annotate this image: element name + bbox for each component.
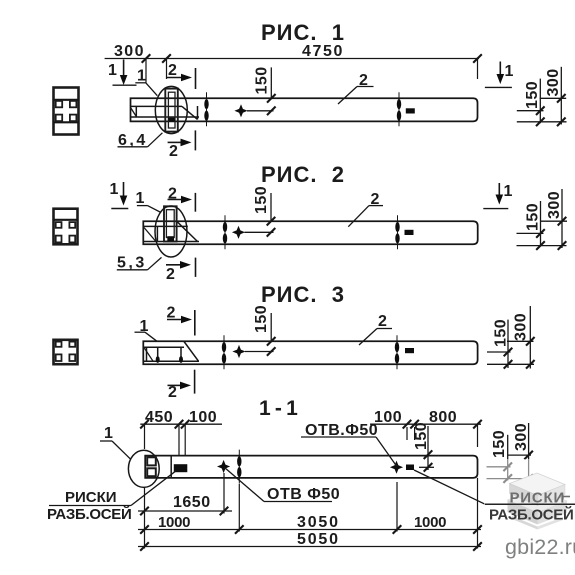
ext line x166 fig1 <box>166 59 168 80</box>
svg-text:ОТВ Ф50: ОТВ Ф50 <box>267 486 340 503</box>
riska plate right 1-1 <box>406 465 414 471</box>
dim row3 5050 <box>138 546 481 548</box>
svg-text:1000: 1000 <box>158 514 190 531</box>
haunch band top fig3 <box>143 346 184 348</box>
svg-text:100: 100 <box>374 409 402 426</box>
svg-text:150: 150 <box>525 203 542 231</box>
riska right fig1 <box>398 92 400 128</box>
ext x407 1-1 <box>406 427 408 440</box>
svg-text:2: 2 <box>378 313 387 330</box>
svg-text:1650: 1650 <box>173 494 211 511</box>
hole left 1-1 <box>217 460 230 473</box>
ext line x146 fig1 <box>145 59 147 84</box>
beam fig1 outline <box>131 98 478 121</box>
ticks 100/800 <box>403 420 412 429</box>
haunch left box fig3 <box>146 347 148 361</box>
beam plan outline <box>145 456 477 478</box>
svg-text:300: 300 <box>545 68 562 96</box>
watermark white square <box>484 459 575 575</box>
ext x144 top 1-1 <box>144 424 146 449</box>
riska right fig3 <box>396 335 398 371</box>
ext x144 bottom 1-1 <box>144 488 146 549</box>
svg-text:РАЗБ.ОСЕЙ: РАЗБ.ОСЕЙ <box>489 506 573 524</box>
ext x477 top 1-1 <box>477 424 479 447</box>
svg-text:gbi22.ru: gbi22.ru <box>505 535 575 559</box>
svg-text:1 - 1: 1 - 1 <box>259 397 298 420</box>
watermark cube upper slab <box>510 473 566 496</box>
beam fig2 outline <box>143 221 477 244</box>
ticks 450/100 <box>140 420 149 429</box>
dim line 300/4750 fig1 <box>105 58 479 60</box>
haunch diagonal fig3 <box>184 342 199 362</box>
svg-text:1: 1 <box>137 68 146 85</box>
callout ellipse fig2 <box>155 206 187 257</box>
section icon fig2 <box>54 209 78 245</box>
svg-text:1: 1 <box>104 425 113 442</box>
tick 300 right <box>162 54 171 63</box>
svg-text:РИС. 2: РИС. 2 <box>261 162 345 187</box>
haunch band bottom fig1 <box>131 116 199 118</box>
svg-text:300: 300 <box>513 313 530 341</box>
svg-text:150: 150 <box>253 186 270 214</box>
riska left fig1 <box>206 92 208 128</box>
haunch diagonal fig2 <box>177 221 198 241</box>
haunch verticals fig3 <box>157 347 159 361</box>
haunch band bottom fig2 <box>143 241 199 243</box>
hole fig1 <box>234 104 247 117</box>
label РИСКИ РАЗБ.ОСЕЙ right leader <box>414 470 485 504</box>
svg-text:150: 150 <box>524 81 541 109</box>
plate edge 1-1 <box>170 456 172 478</box>
riska right fig2 <box>397 215 399 251</box>
embedded mark fig2 <box>405 230 414 235</box>
svg-text:2: 2 <box>166 266 175 283</box>
dim line 450/100 1-1 <box>140 423 222 425</box>
ext x477 bottom 1-1 <box>477 478 479 549</box>
svg-text:2: 2 <box>169 143 178 160</box>
svg-text:150: 150 <box>254 66 271 94</box>
svg-text:800: 800 <box>429 409 457 426</box>
svg-text:300: 300 <box>513 423 530 451</box>
svg-text:1: 1 <box>136 190 145 207</box>
beam fig3 outline <box>143 341 477 364</box>
callout ellipse 1-1 <box>128 450 159 487</box>
svg-text:4750: 4750 <box>302 43 344 60</box>
svg-text:РАЗБ.ОСЕЙ: РАЗБ.ОСЕЙ <box>47 505 131 523</box>
svg-text:1000: 1000 <box>414 514 446 531</box>
haunch diagonal fig1 <box>182 106 198 119</box>
svg-text:5,3: 5,3 <box>117 255 147 272</box>
svg-text:1: 1 <box>504 183 513 200</box>
svg-text:1: 1 <box>108 62 117 79</box>
section icon fig3 <box>54 340 78 364</box>
embedded mark fig3 <box>405 348 414 353</box>
dim row2 1000/3050/1000 <box>138 529 481 531</box>
svg-text:300: 300 <box>546 191 563 219</box>
embedded plate fig1 <box>165 89 178 132</box>
haunch left box fig1 <box>135 106 137 117</box>
callout ellipse fig1 <box>155 86 187 133</box>
haunch left box fig2 <box>156 226 158 241</box>
ext x239 bottom 1-1 <box>238 484 240 532</box>
ext line x477 fig1 <box>477 59 479 80</box>
svg-text:1: 1 <box>110 181 119 198</box>
embedded mark fig1 <box>406 108 415 113</box>
ext x397 bottom 1-1 <box>396 482 398 532</box>
section icon fig1 <box>54 88 79 135</box>
ext x185 1-1 <box>184 424 186 455</box>
svg-text:300: 300 <box>114 43 145 60</box>
svg-text:РИС. 3: РИС. 3 <box>261 282 345 307</box>
riska plate left 1-1 <box>174 464 188 472</box>
riska left fig2 <box>224 215 226 251</box>
dim line 100/800 1-1 <box>370 423 481 425</box>
svg-text:150: 150 <box>491 430 508 458</box>
svg-text:100: 100 <box>189 409 217 426</box>
haunch band bottom fig3 <box>143 360 199 362</box>
tick 300 left <box>142 54 151 63</box>
hole fig3 <box>232 345 245 358</box>
dim row 1650 <box>138 510 232 512</box>
haunch band top fig1 <box>131 105 182 107</box>
ext x414 1-1 <box>414 427 416 440</box>
riska left fig3 <box>223 335 225 371</box>
svg-text:3050: 3050 <box>297 514 340 531</box>
hole right 1-1 <box>390 461 403 474</box>
svg-text:РИС. 1: РИС. 1 <box>261 20 345 45</box>
svg-text:РИСКИ: РИСКИ <box>65 489 117 506</box>
plate squares 1-1 <box>147 457 156 465</box>
svg-text:150: 150 <box>253 305 270 333</box>
svg-text:450: 450 <box>145 409 173 426</box>
svg-text:2: 2 <box>168 62 177 79</box>
hole fig2 <box>232 226 245 239</box>
tick 4750 right <box>473 54 482 63</box>
haunch band top fig2 <box>143 225 188 227</box>
embedded plate fig2 <box>164 206 177 241</box>
riska axis left 1-1 <box>238 450 240 485</box>
ext x224 bottom 1-1 <box>223 473 225 514</box>
svg-text:5050: 5050 <box>297 531 340 548</box>
svg-text:150: 150 <box>493 319 510 347</box>
ext x179 1-1 <box>178 424 180 455</box>
svg-text:1: 1 <box>505 63 514 80</box>
watermark cube lower slab <box>508 489 568 513</box>
svg-text:2: 2 <box>168 384 177 401</box>
